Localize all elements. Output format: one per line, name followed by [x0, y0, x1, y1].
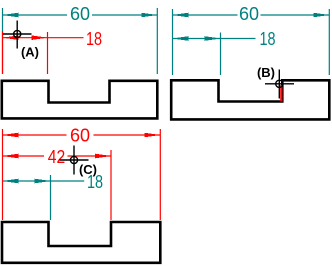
part outline A (notched block) — [2, 81, 158, 119]
dimension line 18 (teal) — [3, 180, 85, 182]
dimension line 60 (teal) left segment — [3, 14, 68, 16]
svg-text:60: 60 — [239, 4, 259, 24]
crosshair cursor C — [60, 146, 89, 175]
extension line B-mid (teal, dim 18) — [220, 33, 222, 76]
arrowhead C18 right — [35, 179, 51, 184]
svg-text:(B): (B) — [257, 65, 275, 80]
crosshair cursor B — [265, 70, 294, 99]
dimension line 60 (teal) right segment — [92, 14, 157, 16]
red rubber extension line B — [280, 85, 282, 102]
dimension line 18 (teal) — [173, 38, 256, 40]
extension line A-left (teal upper part, dim 60) — [2, 8, 4, 74]
svg-text:(C): (C) — [79, 162, 97, 177]
extension line C-left (red, shared) — [2, 129, 4, 220]
arrowhead C42 left — [3, 154, 19, 159]
arrowhead 60 left — [3, 13, 19, 18]
extension line C-right (red, dim 60) — [159, 129, 161, 220]
extension line B-right (teal) — [328, 9, 330, 75]
svg-text:18: 18 — [260, 29, 276, 49]
part outline C (notched block) — [2, 222, 160, 263]
dimension line 60 (red) left segment — [3, 134, 67, 136]
dimension line 60 (teal) right segment — [261, 14, 330, 16]
dimension line 60 (teal) left segment — [173, 14, 238, 16]
arrowhead B18 right — [205, 36, 221, 41]
arrowhead C60 right — [144, 133, 160, 138]
arrowhead C18 left — [3, 179, 19, 184]
svg-text:(A): (A) — [21, 45, 39, 60]
arrowhead B60 right — [313, 13, 329, 18]
svg-text:60: 60 — [70, 125, 90, 145]
crosshair cursor A — [3, 21, 32, 49]
arrowhead 18 left — [3, 35, 19, 40]
arrowhead 18 right — [32, 35, 48, 40]
arrowhead B60 left — [173, 13, 189, 18]
arrowhead C60 left — [3, 133, 19, 138]
dimension line 42 (red) right segment — [68, 155, 112, 157]
arrowhead B18 left — [173, 36, 189, 41]
arrowhead 60 right — [141, 13, 157, 18]
dimension line 60 (red) right segment — [94, 134, 161, 136]
svg-text:42: 42 — [48, 147, 66, 167]
part outline B (notched block) — [171, 80, 329, 119]
svg-text:60: 60 — [70, 4, 90, 24]
svg-text:18: 18 — [86, 29, 102, 49]
extension line A-mid (red, dim 18) — [47, 32, 49, 74]
extension line A-left lower (red, dim 18) — [2, 31, 4, 74]
extension line A-right (teal, dim 60) — [156, 8, 158, 74]
extension line C teal (dim 18 right) — [50, 175, 52, 220]
extension line B-left (teal) — [172, 9, 174, 75]
dimension line 18 (red) — [3, 37, 84, 39]
extension line C-mid (red, dim 42) — [110, 150, 112, 220]
dimension line 42 (red) left segment — [3, 155, 45, 157]
arrowhead C42 right — [95, 154, 111, 159]
